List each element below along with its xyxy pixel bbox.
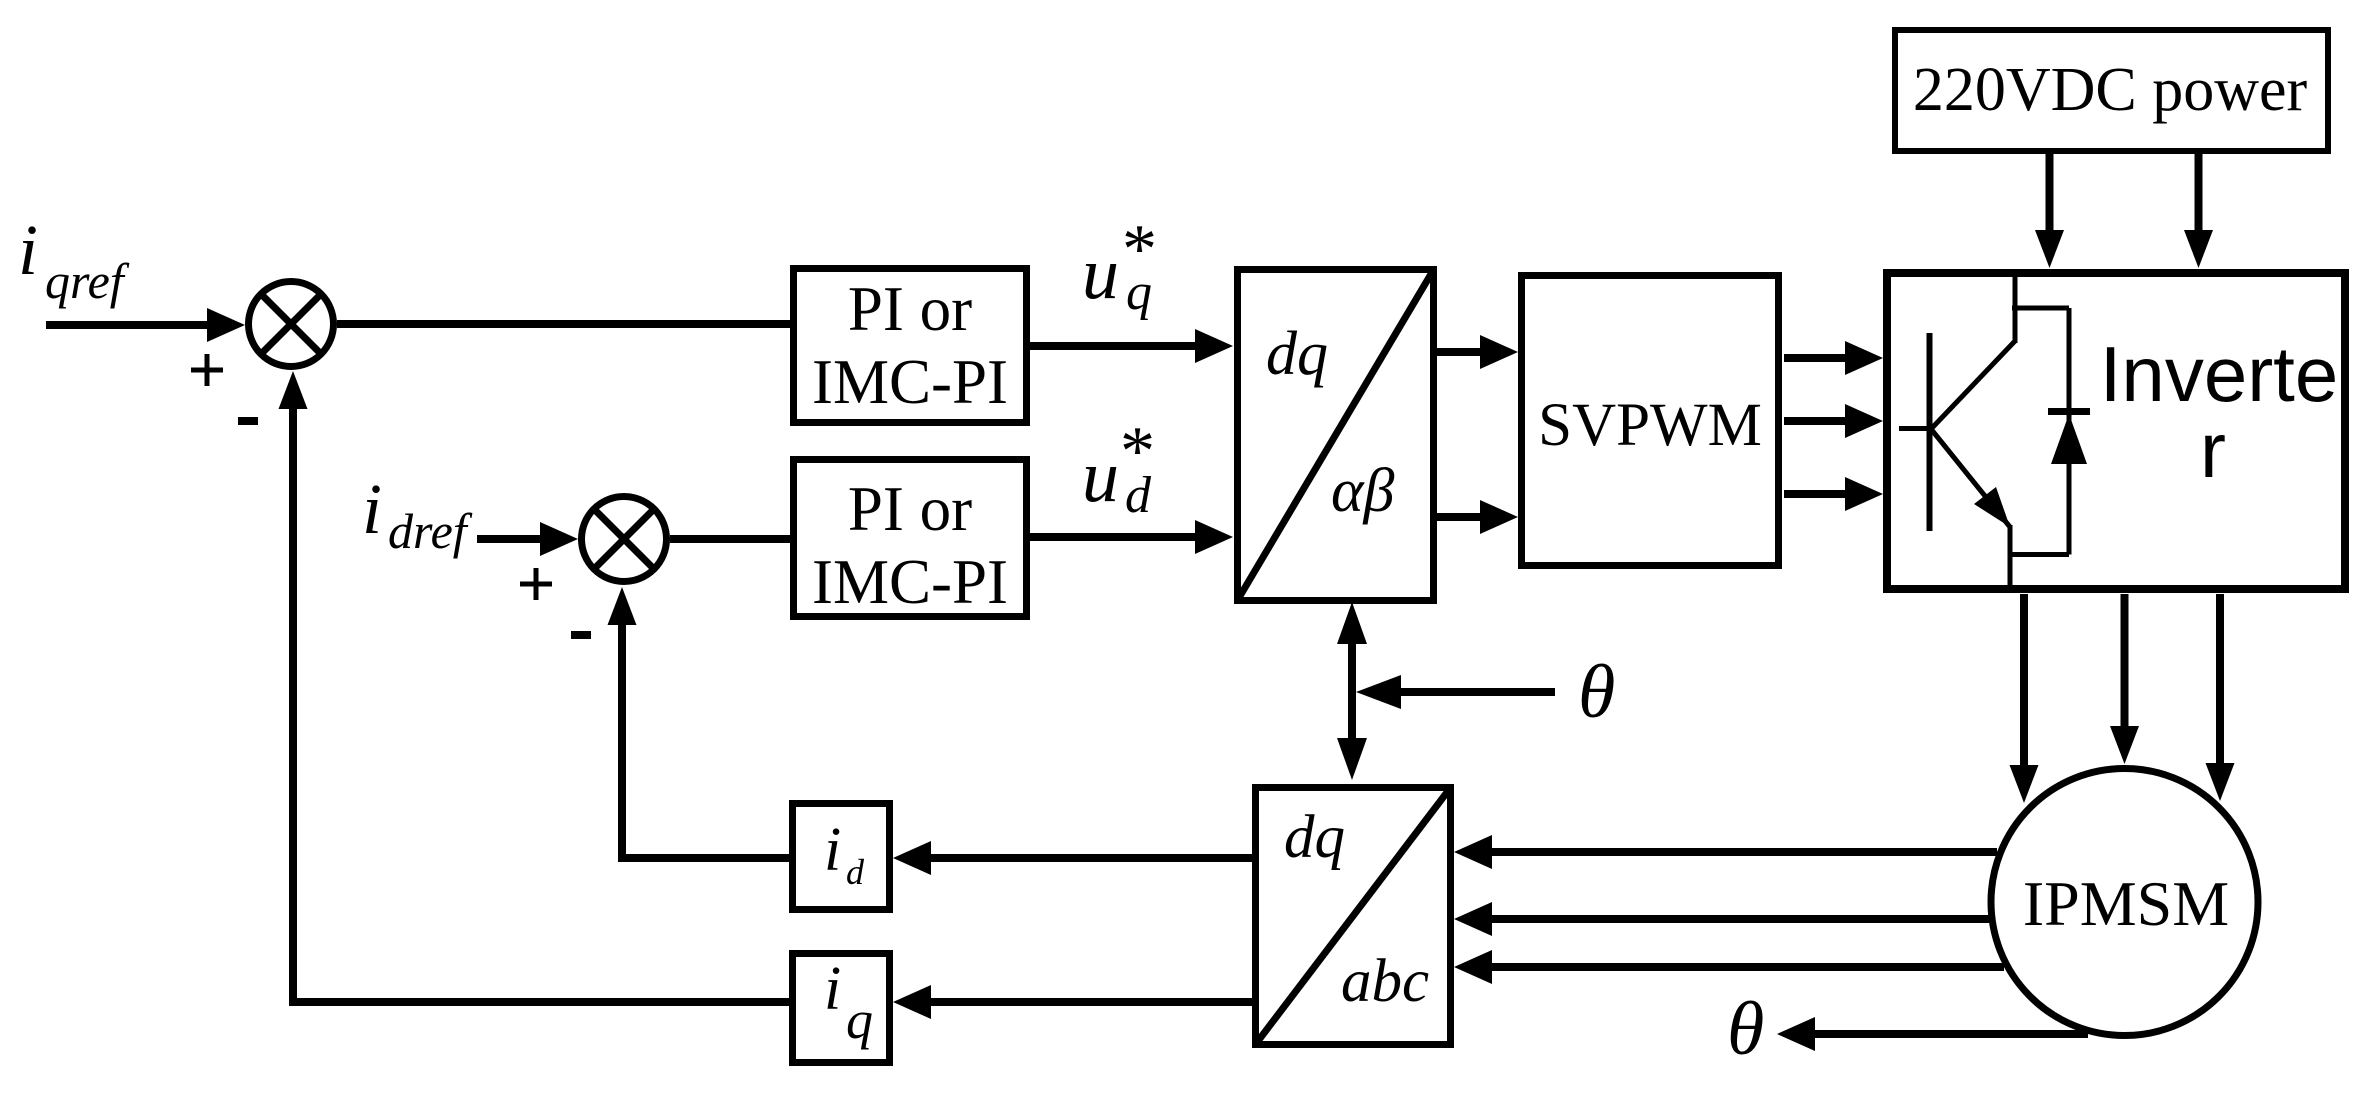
block PI or IMC-PI (q axis) [794,269,1027,423]
svg-text:Inverte: Inverte [2100,330,2338,418]
svg-text:u: u [1082,436,1119,518]
wire IPMSM to dq/abc (top) [1454,835,1997,869]
svg-text:SVPWM: SVPWM [1538,392,1762,459]
svg-text:θ: θ [1727,987,1764,1071]
wire Inverter to IPMSM (right) [2206,594,2235,801]
wire IPMSM to dq/abc (bottom) [1454,950,2004,984]
summing junction S1 [249,282,334,367]
wire SVPWM to Inverter (middle) [1784,404,1883,438]
svg-text:qref: qref [45,253,130,309]
wire dq/abc to id box [893,841,1252,875]
block dq to alpha-beta transform [1237,269,1434,601]
node i_dref label [362,469,473,559]
block PI or IMC-PI (d axis) [794,460,1027,618]
summing junction S2 [582,497,667,582]
wire theta bidirectional between transforms [1337,602,1367,780]
wire iq feedback to S1 [279,371,790,1002]
minus sign at S2 [571,631,591,639]
wire 220VDC to Inverter (right) [2184,150,2213,268]
wire dq/ab to SVPWM (lower) [1437,500,1518,534]
svg-text:PI or: PI or [848,474,972,544]
svg-text:r: r [2200,406,2226,494]
svg-text:d: d [846,852,865,892]
block SVPWM [1522,276,1779,566]
svg-text:θ: θ [1578,650,1615,734]
wire theta from IPMSM [1777,1017,2088,1051]
block 220VDC power [1895,30,2328,151]
transistor IGBT inside inverter [1899,271,2015,592]
svg-text:dref: dref [388,503,473,559]
svg-text:i: i [824,955,841,1023]
wire Inverter to IPMSM (left) [2010,594,2039,803]
wire id feedback to S2 [608,587,790,858]
svg-text:*: * [1122,211,1157,288]
node i_qref label [18,210,130,309]
plus sign at S2 [520,568,552,600]
plus sign at S1 [191,354,223,386]
wire S2 to PI box 2 [670,535,790,543]
diode freewheeling beside IGBT [2008,308,2090,555]
svg-text:i: i [824,816,841,884]
node u_d* label [1082,413,1155,524]
wire i_dref input arrow [477,522,578,556]
wire 220VDC to Inverter (left) [2035,150,2064,268]
block id sampling [793,804,890,910]
wire dq/abc to iq box [893,985,1252,1019]
wire SVPWM to Inverter (bottom) [1784,477,1883,511]
svg-text:IMC-PI: IMC-PI [812,347,1008,417]
svg-text:q: q [846,990,873,1050]
svg-text:abc: abc [1341,948,1429,1015]
wire theta input to transforms [1356,675,1555,709]
svg-text:αβ: αβ [1331,457,1395,525]
node u_q* label [1082,211,1157,321]
svg-text:*: * [1120,413,1155,490]
svg-text:dq: dq [1266,320,1328,388]
block Inverter [1887,273,2345,589]
svg-text:dq: dq [1284,804,1345,871]
svg-text:i: i [362,469,382,549]
wire SVPWM to Inverter (top) [1784,341,1883,375]
motor IPMSM [1991,769,2258,1036]
svg-text:220VDC power: 220VDC power [1913,56,2308,124]
block dq to abc transform [1255,787,1451,1045]
svg-text:u: u [1082,233,1119,315]
minus sign at S1 [238,417,258,425]
wire Inverter to IPMSM (middle) [2110,594,2139,764]
wire IPMSM to dq/abc (middle) [1454,902,1989,936]
svg-text:IPMSM: IPMSM [2023,868,2229,939]
wire i_qref input arrow [46,308,245,342]
block iq sampling [793,954,890,1063]
wire PI2 to dq/ab transform [1030,520,1233,554]
wire S1 to PI box 1 [337,320,790,328]
wire PI1 to dq/ab transform [1030,329,1233,363]
svg-text:i: i [18,210,38,290]
wire dq/ab to SVPWM (upper) [1437,335,1518,369]
svg-text:PI or: PI or [848,274,972,344]
svg-text:IMC-PI: IMC-PI [812,547,1008,617]
